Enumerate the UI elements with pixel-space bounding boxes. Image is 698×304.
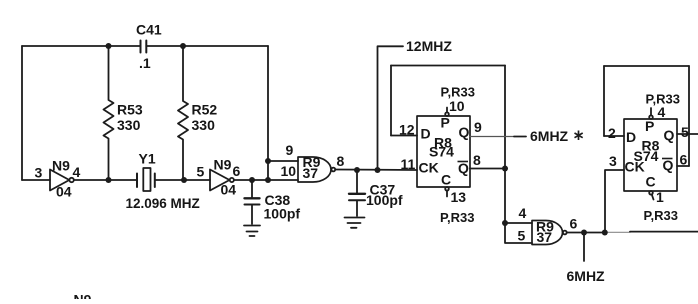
svg-text:8: 8	[337, 153, 345, 169]
svg-text:04: 04	[56, 184, 72, 200]
wire FF1 feedback left vertical	[390, 66, 392, 136]
crystal Y1	[137, 168, 155, 191]
svg-text:N9: N9	[214, 157, 232, 173]
wire FF2 Q pin5 output	[677, 133, 698, 135]
overbar Qbar FF1	[458, 161, 469, 163]
svg-text:04: 04	[221, 182, 237, 198]
svg-text:100pf: 100pf	[366, 192, 403, 208]
wire inverter N9 input	[22, 179, 50, 181]
svg-text:4: 4	[73, 164, 81, 180]
wire FF1 feedback right vertical	[504, 66, 506, 224]
wire left vertical	[21, 46, 23, 180]
wire FF2 feedback left vertical	[603, 66, 605, 136]
wire FF1 Qbar pin8 output	[470, 168, 505, 170]
svg-text:6MHZ: 6MHZ	[567, 268, 606, 284]
FF1 preset pin10 tick	[445, 108, 449, 116]
node 6MHZ drop junction	[581, 230, 587, 236]
node top wire / R52	[180, 43, 186, 49]
FF2 clear pin1 tick	[649, 191, 653, 200]
svg-text:.1: .1	[139, 55, 151, 71]
wire FF2 D pin2	[604, 135, 624, 137]
svg-text:6MHZ: 6MHZ	[530, 128, 569, 144]
svg-text:4: 4	[658, 104, 666, 120]
svg-text:Q: Q	[458, 160, 469, 176]
svg-text:12: 12	[399, 122, 415, 138]
node main wire / R53	[106, 177, 112, 183]
svg-text:5: 5	[197, 164, 205, 180]
node FF2 CK junction	[602, 230, 608, 236]
svg-text:100pf: 100pf	[264, 206, 301, 222]
star of 6MHZ*	[575, 131, 583, 141]
resistor R53	[104, 46, 114, 180]
ground for C38	[244, 226, 260, 237]
svg-text:P,R33: P,R33	[440, 210, 474, 225]
svg-text:Q: Q	[664, 127, 675, 143]
wire FF2 Qbar pin6 output	[677, 165, 689, 167]
svg-text:C: C	[441, 172, 451, 188]
wire NAND1 output to FF1 CK	[335, 169, 417, 172]
resistor R52	[178, 46, 188, 180]
capacitor C38	[245, 180, 260, 224]
overbar Qbar FF2	[662, 158, 673, 160]
svg-text:13: 13	[451, 189, 467, 205]
svg-text:8: 8	[473, 152, 481, 168]
wire feedback riser x268	[267, 46, 269, 180]
wire inverter2 output to NAND R9	[234, 179, 298, 181]
node top wire / R53	[106, 43, 112, 49]
svg-text:10: 10	[281, 163, 297, 179]
nand gate R9 37 first	[298, 157, 335, 182]
wire output run to right edge	[605, 231, 630, 233]
svg-text:C41: C41	[136, 22, 162, 38]
svg-text:N9: N9	[52, 158, 70, 174]
svg-text:C: C	[646, 174, 656, 190]
node C38 tap	[249, 177, 255, 183]
wire FF1 Q pin9 output	[470, 136, 514, 138]
node 12MHZ riser base	[375, 167, 381, 173]
svg-text:5: 5	[518, 228, 526, 244]
wire top feedback left segment	[22, 45, 140, 47]
wire NAND2 pin5 loop	[505, 223, 532, 243]
FF1 clear pin13 tick	[445, 187, 449, 197]
svg-text:CK: CK	[419, 160, 439, 176]
svg-text:10: 10	[449, 98, 465, 114]
svg-text:N9: N9	[74, 292, 92, 300]
svg-text:6: 6	[233, 163, 241, 179]
svg-text:12MHZ: 12MHZ	[406, 38, 452, 54]
svg-text:37: 37	[303, 165, 319, 181]
wire NAND2 output	[567, 232, 605, 234]
svg-text:3: 3	[35, 165, 43, 181]
svg-text:Y1: Y1	[139, 151, 156, 167]
wire FF2 feedback top	[604, 65, 689, 67]
svg-text:9: 9	[286, 142, 294, 158]
wire 6MHZ drop	[583, 233, 585, 262]
svg-text:6: 6	[570, 216, 578, 232]
inverter N9 (04) second	[210, 170, 234, 191]
nand gate R9 37 second	[532, 221, 567, 245]
svg-text:S74: S74	[429, 144, 454, 160]
svg-text:3: 3	[609, 153, 617, 169]
svg-text:P,R33: P,R33	[644, 208, 678, 223]
svg-text:330: 330	[192, 117, 216, 133]
svg-text:D: D	[626, 129, 636, 145]
FF2 preset pin4 tick	[649, 108, 653, 119]
svg-text:2: 2	[608, 125, 616, 141]
node pin9 branch	[265, 158, 271, 164]
svg-text:Q: Q	[459, 124, 470, 140]
svg-text:Q: Q	[663, 157, 674, 173]
svg-text:6: 6	[680, 152, 688, 168]
wire FF1 D pin12	[391, 135, 417, 137]
flip-flop U-R8 S74 first box	[417, 116, 470, 187]
flip-flop U-R8 S74 second box	[624, 119, 677, 191]
svg-text:1: 1	[656, 189, 664, 205]
capacitor C37	[349, 170, 365, 216]
svg-text:9: 9	[474, 119, 482, 135]
wire 12MHZ tap	[378, 46, 404, 170]
svg-text:R53: R53	[117, 102, 143, 118]
svg-text:P: P	[441, 115, 450, 131]
node riser base	[265, 177, 271, 183]
svg-text:330: 330	[117, 117, 141, 133]
svg-text:CK: CK	[625, 159, 645, 175]
svg-text:12.096 MHZ: 12.096 MHZ	[126, 196, 200, 211]
svg-text:R52: R52	[192, 102, 218, 118]
node C37 tap	[354, 167, 360, 173]
wire NAND pin9 stub	[268, 160, 298, 162]
node NAND2 input junction	[502, 220, 508, 226]
svg-text:37: 37	[537, 229, 553, 245]
ground for C37	[345, 218, 365, 228]
svg-text:5: 5	[681, 124, 689, 140]
svg-text:11: 11	[401, 156, 416, 172]
wire inverter1 output to crystal	[74, 179, 137, 181]
node FF1 Qbar junction	[502, 166, 508, 172]
wire crystal to inverter2	[155, 179, 210, 181]
wire FF2 CK riser pin3	[605, 170, 624, 233]
wire top feedback right segment	[146, 45, 268, 47]
svg-text:P: P	[645, 118, 654, 134]
svg-text:4: 4	[519, 205, 527, 221]
svg-text:D: D	[421, 126, 431, 142]
capacitor C41	[141, 41, 147, 53]
wire FF2 feedback right vertical	[688, 66, 690, 166]
wire NAND2 pin4	[505, 222, 532, 224]
wire FF1 feedback top	[391, 65, 505, 67]
inverter N9 (04) first	[50, 170, 74, 191]
node main wire / R52	[181, 177, 187, 183]
